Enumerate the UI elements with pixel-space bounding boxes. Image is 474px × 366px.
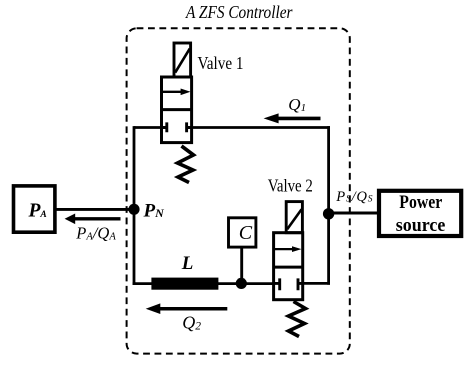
valve U1 body [162,77,192,143]
wire: C box stem [240,248,243,283]
svg-text:PS/QS: PS/QS [335,189,373,205]
valve U1 right blocked port [187,122,192,132]
valve U2 solenoid box [286,202,302,233]
wire: node PS to power source box [329,212,379,215]
valve U1 body divider [162,108,192,111]
valve U2 flow arrow [275,248,295,250]
node PS [323,208,334,219]
valve U1 return spring [178,146,194,183]
node PN [128,204,139,215]
box power source [379,191,461,236]
controller dashed boundary box [127,28,350,353]
wire: valve1 left port to left rail [134,126,162,129]
valve U1 left blocked port [162,122,167,132]
wire: left vertical rail [133,126,136,285]
valve U1 solenoid box [174,43,191,77]
wire: valve2 right port to right rail [303,282,330,285]
arrow Q2 (flow direction) [158,307,227,311]
svg-text:Valve 1: Valve 1 [198,53,244,73]
wire: PA box to node PN [56,208,135,211]
valve U1 solenoid diagonal [175,49,190,73]
wire: right vertical rail [327,126,330,285]
svg-text:source: source [396,216,446,236]
box C [229,218,256,247]
svg-text:Power: Power [399,193,442,213]
wire: bottom horizontal [133,282,274,285]
valve U2 body divider [274,266,303,269]
svg-text:C: C [239,222,253,244]
svg-text:Valve 2: Valve 2 [268,176,313,196]
inductance bar L [151,278,218,290]
svg-text:A ZFS Controller: A ZFS Controller [185,2,292,22]
arrow PA/QA (flow direction) [74,217,121,220]
valve U1 flow arrow [163,91,183,93]
valve U2 right blocked port [298,278,303,290]
valve U2 return spring [289,302,306,337]
arrow Q1 (flow direction) [276,117,321,121]
valve U2 left blocked port [274,278,280,290]
svg-text:L: L [181,253,194,274]
valve U2 body [274,233,303,300]
box PA [14,186,55,232]
node under C [236,278,247,289]
wire: Q1 line (valve1 right port to right rail) [192,126,330,129]
valve U2 solenoid diagonal [287,209,301,229]
